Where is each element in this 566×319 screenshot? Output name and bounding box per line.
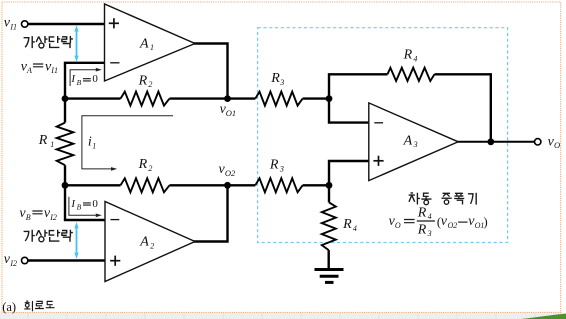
svg-text:4: 4: [413, 54, 417, 63]
svg-text:4: 4: [428, 212, 432, 221]
svg-text:O2: O2: [225, 168, 236, 178]
svg-text:I2: I2: [49, 213, 57, 222]
svg-text:I1: I1: [50, 66, 58, 75]
svg-text:R: R: [38, 133, 48, 148]
svg-text:3: 3: [413, 140, 418, 149]
svg-text:R: R: [417, 222, 427, 237]
svg-text:O1: O1: [226, 108, 236, 118]
svg-text:3: 3: [427, 229, 432, 238]
svg-text:B: B: [77, 203, 82, 212]
svg-text:R: R: [417, 206, 427, 221]
svg-text:A: A: [26, 66, 32, 75]
svg-text:B: B: [26, 213, 31, 222]
svg-text:1: 1: [92, 141, 96, 150]
svg-text:R: R: [138, 157, 148, 172]
svg-text:2: 2: [148, 80, 152, 89]
svg-text:I1: I1: [9, 22, 17, 31]
svg-text:(a): (a): [2, 300, 16, 314]
svg-text:O2: O2: [448, 221, 458, 230]
svg-text:2: 2: [148, 164, 152, 173]
svg-text:2: 2: [150, 241, 154, 250]
svg-text:A: A: [139, 37, 149, 52]
svg-text:): ): [484, 215, 488, 229]
svg-text:4: 4: [353, 224, 357, 233]
svg-text:1: 1: [50, 140, 54, 149]
svg-text:3: 3: [279, 165, 284, 174]
svg-text:I2: I2: [9, 259, 17, 268]
svg-text:O: O: [395, 221, 401, 230]
svg-text:0: 0: [92, 73, 98, 85]
svg-text:0: 0: [92, 198, 98, 210]
svg-text:R: R: [403, 48, 413, 63]
svg-text:R: R: [270, 71, 280, 86]
svg-text:A: A: [403, 133, 413, 148]
svg-text:3: 3: [279, 78, 284, 87]
svg-text:R: R: [269, 158, 279, 173]
svg-text:B: B: [77, 78, 82, 87]
svg-text:R: R: [342, 217, 352, 232]
svg-text:O: O: [554, 140, 560, 150]
svg-text:R: R: [138, 73, 148, 88]
svg-text:1: 1: [150, 43, 154, 52]
svg-text:A: A: [139, 235, 149, 250]
